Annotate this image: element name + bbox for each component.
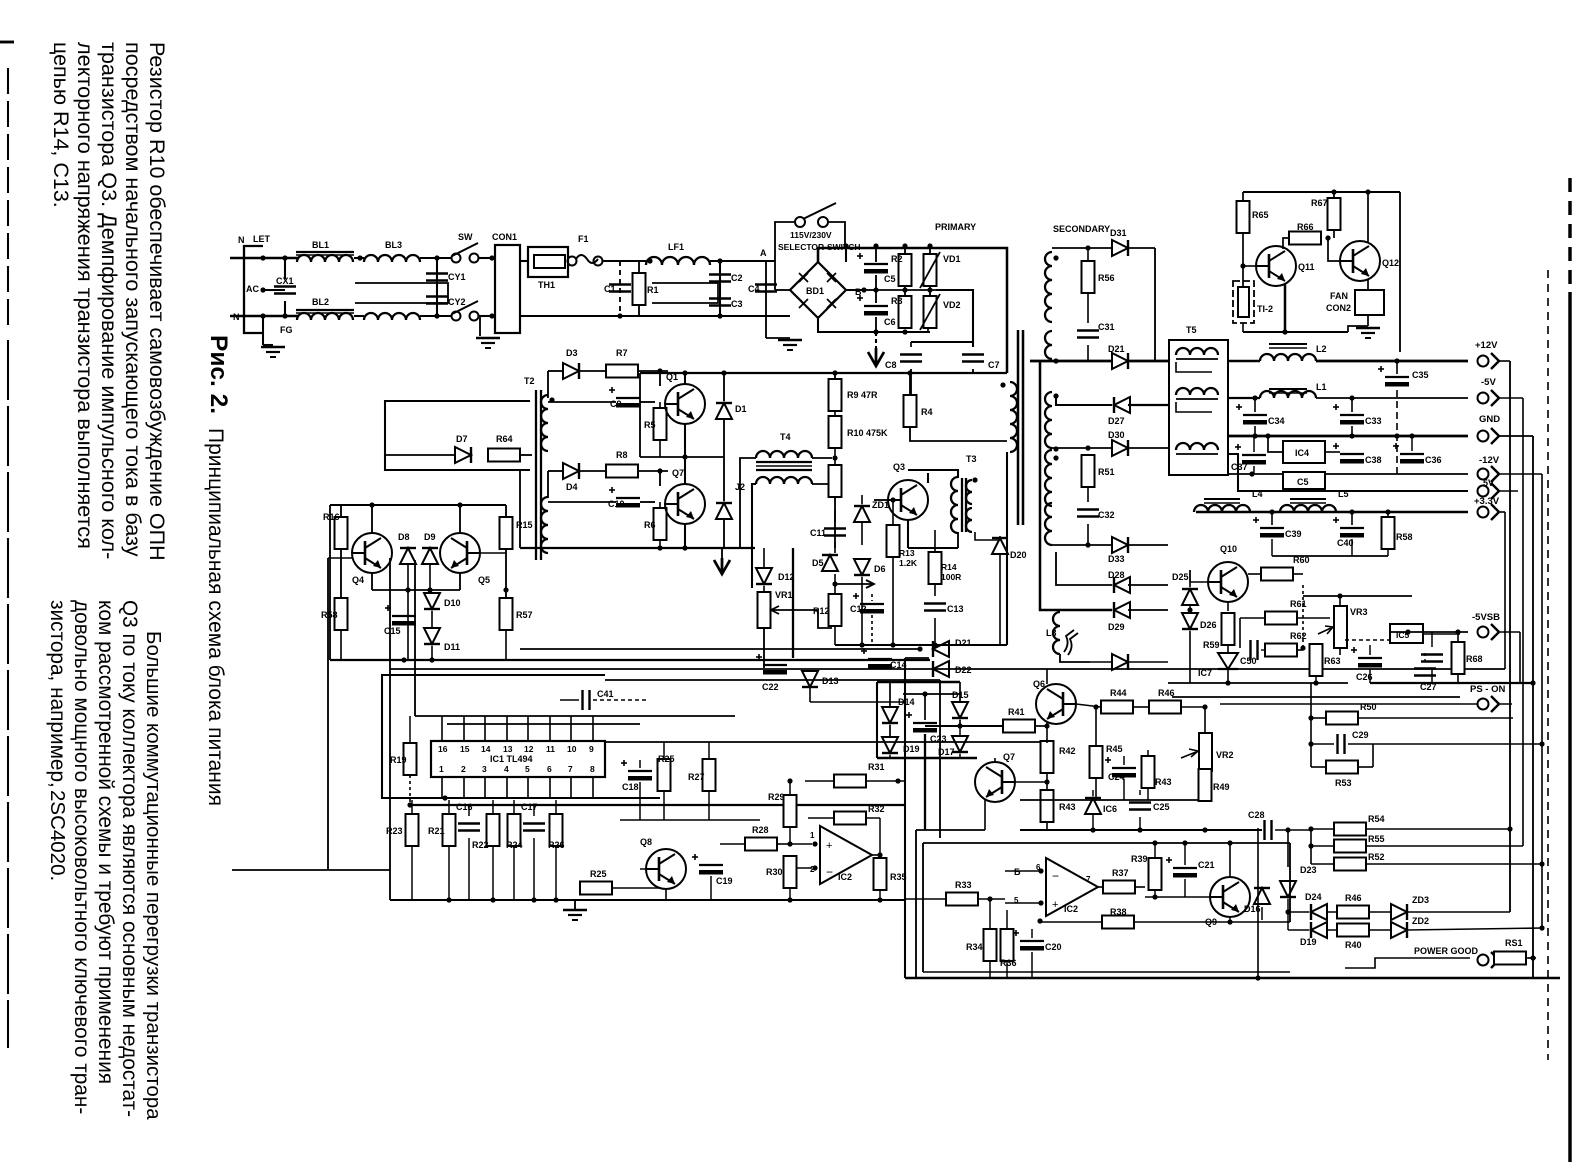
wire R53 in — [1311, 766, 1326, 768]
wire link to R50 block — [1310, 683, 1312, 718]
wire C5 top — [875, 246, 877, 262]
inductor BL2 — [297, 313, 353, 320]
wire D1 top — [723, 373, 725, 401]
wire R1 top — [638, 261, 640, 273]
svg-text:D5: D5 — [812, 558, 824, 568]
wire Q6-R44 — [1076, 704, 1101, 707]
wire bottom rail prim — [864, 331, 930, 333]
diode D12 — [756, 568, 772, 584]
junction C39 top — [1269, 509, 1274, 514]
wire primary return — [875, 332, 877, 348]
svg-text:D7: D7 — [456, 434, 468, 444]
junction R31 out — [895, 778, 900, 783]
wire GND rail — [1228, 435, 1468, 438]
resistor R8 — [606, 465, 638, 478]
junction Q3 base node — [890, 497, 895, 502]
svg-text:2: 2 — [461, 764, 466, 774]
capacitor C8 — [900, 355, 922, 362]
wire C13 bot — [934, 618, 936, 645]
resistor R51b — [1494, 952, 1526, 965]
resistor R66 — [1289, 232, 1321, 245]
resistor R21 — [443, 814, 456, 846]
wire C11-D5 — [834, 543, 836, 553]
wire -5 cont — [1499, 397, 1523, 399]
wire Q3 emitter — [907, 520, 909, 548]
wire to R61 — [1240, 617, 1265, 619]
wire D33 out — [1128, 544, 1168, 546]
svg-text:R37: R37 — [1112, 868, 1129, 878]
zener IC6 — [1085, 798, 1101, 814]
wire C16 bot — [468, 838, 470, 900]
IC IC4 box — [1283, 441, 1325, 463]
svg-text:D6: D6 — [874, 564, 886, 574]
wire C17 top — [533, 805, 535, 816]
svg-text:Q11: Q11 — [1298, 262, 1315, 272]
junction R38 in — [1037, 918, 1042, 923]
wire joint — [1315, 649, 1317, 651]
junction CY node bot — [434, 313, 439, 318]
svg-text:зистора, например,: зистора, например, — [46, 600, 69, 788]
wire D27 right — [1128, 404, 1168, 406]
junction R10 node — [832, 455, 837, 460]
svg-text:C11: C11 — [810, 528, 826, 538]
svg-text:Резистор R10 обеспечивает с: Резистор R10 обеспечивает самовозбуждени… — [145, 42, 169, 561]
svg-text:Q7: Q7 — [1003, 752, 1015, 762]
wire to IC2 pin1 — [790, 843, 812, 845]
wire R545252 left — [1310, 829, 1312, 864]
wire R32 out — [866, 817, 880, 819]
resistor R63 — [1310, 644, 1323, 676]
resistor R39 — [1149, 858, 1162, 890]
wire reg bottom rail — [1168, 682, 1348, 684]
diode D6 — [854, 559, 870, 575]
junction C5C6 — [873, 287, 878, 292]
inductor L3 — [1053, 612, 1060, 654]
wire R13 bot — [892, 557, 894, 645]
resistor R57 — [500, 598, 513, 630]
svg-text:R51: R51 — [1098, 467, 1115, 477]
svg-text:R40: R40 — [1345, 940, 1362, 950]
wire C36 top — [1411, 436, 1413, 451]
wire Q10-R60 — [1248, 573, 1261, 575]
wire VD1-VD2 — [929, 286, 931, 296]
junction CY node top — [434, 255, 439, 260]
junction D15 out — [957, 723, 962, 728]
svg-text:R4: R4 — [921, 407, 933, 417]
wire BL2-BL3 — [354, 315, 364, 317]
wire to D3 — [548, 370, 563, 372]
wire rail 843 — [1040, 842, 1290, 844]
wire diode box top — [877, 681, 960, 684]
wire ground bus ic1 — [390, 899, 905, 901]
wire C21 bot — [1184, 879, 1186, 897]
svg-text:L3: L3 — [1046, 628, 1057, 638]
wire 3v3 down — [1504, 512, 1506, 669]
svg-text:C29: C29 — [1352, 730, 1369, 740]
core L3 arrow — [1064, 630, 1078, 655]
wire gnd down x1533 — [1532, 436, 1534, 978]
resistor R52 — [1334, 858, 1366, 871]
wire to D4 — [548, 470, 563, 472]
junction Q1 base — [657, 368, 662, 373]
diode D22 — [933, 661, 949, 677]
wire AC tap — [263, 289, 285, 291]
core T3 a — [961, 478, 963, 532]
wire VD1 top — [929, 246, 931, 254]
wire dashed x1303 — [1302, 585, 1304, 648]
capacitor C17 — [523, 824, 545, 831]
svg-text:C5: C5 — [884, 274, 896, 284]
diode D30 — [1112, 440, 1128, 456]
svg-text:RS1: RS1 — [1505, 938, 1523, 948]
junction T1 prim top — [1000, 382, 1005, 387]
svg-text:R9 47R: R9 47R — [847, 390, 878, 400]
wire Q6 em down — [1046, 721, 1048, 743]
wire IC2a out — [872, 854, 880, 856]
wire R53 up — [1372, 744, 1374, 767]
svg-text:BL3: BL3 — [385, 240, 402, 250]
svg-text:+12V: +12V — [1475, 340, 1498, 351]
capacitor C38 — [1333, 443, 1364, 464]
wire R54 in — [1311, 828, 1334, 830]
wire R39 top — [1154, 843, 1156, 858]
svg-text:CON1: CON1 — [492, 232, 517, 242]
thermistor TH1 — [528, 247, 568, 277]
wire +3.3V rail — [1196, 511, 1468, 514]
wire R12 bot — [834, 626, 836, 645]
svg-text:D33: D33 — [1108, 554, 1125, 564]
capacitor C16 — [458, 824, 480, 831]
resistor R37 — [1103, 881, 1135, 894]
wire R56 top — [1087, 248, 1089, 261]
wire R16 top — [340, 505, 342, 517]
junction D1 top — [721, 370, 726, 375]
wire C6 bot — [875, 317, 877, 332]
wire R50 out — [1358, 717, 1513, 719]
wire diode box left — [876, 682, 878, 758]
wire C39 top — [1271, 512, 1273, 525]
junction zd2 row — [1539, 925, 1544, 930]
wire D12 top — [763, 548, 765, 568]
transformer T1 sec w2 — [1045, 392, 1052, 448]
svg-text:16: 16 — [438, 744, 448, 754]
wire selector left — [775, 222, 795, 261]
wire IC6 bot — [1092, 814, 1094, 830]
svg-text:1: 1 — [439, 764, 444, 774]
arrow R12 node — [835, 580, 874, 588]
ground IC1 area — [563, 910, 587, 920]
junction gnd683 — [1530, 680, 1535, 685]
transformer T4 winding top — [756, 451, 812, 458]
diode D23 — [1280, 881, 1296, 897]
wire R46 out — [1181, 706, 1205, 708]
svg-text:Рис. 2.: Рис. 2. — [205, 335, 232, 414]
svg-text:R58: R58 — [1396, 532, 1413, 542]
wire C41 in — [560, 699, 579, 701]
resistor R24 — [508, 814, 521, 846]
wire bus b3 — [520, 648, 920, 650]
wire selector right — [828, 222, 845, 246]
wire R32 in — [808, 817, 834, 819]
svg-text:L5: L5 — [1338, 489, 1349, 499]
resistor R50 — [1326, 712, 1358, 725]
diode D1 — [716, 403, 732, 419]
inductor L5 — [1280, 505, 1336, 512]
junction L — [260, 255, 265, 260]
junction gnd3 — [531, 897, 536, 902]
wire primary bottom rail — [835, 644, 1007, 646]
terminal GND — [1478, 428, 1500, 444]
transistor Q3 — [888, 480, 928, 520]
svg-text:D24: D24 — [1305, 892, 1322, 902]
wire L3 top — [1059, 611, 1061, 613]
resistor R22 — [487, 814, 500, 846]
wire C24 bot — [1123, 779, 1125, 800]
svg-text:R61: R61 — [1290, 599, 1307, 609]
junction R54 right — [1507, 826, 1512, 831]
svg-text:R3: R3 — [891, 296, 903, 306]
capacitor C20 — [1013, 930, 1044, 951]
wire Q10 base in — [1190, 581, 1208, 583]
wire R13 top — [892, 500, 894, 525]
wire R21 bot — [448, 846, 450, 900]
wire VR2 bot — [1204, 771, 1206, 800]
svg-text:R52: R52 — [1368, 852, 1385, 862]
svg-text:C20: C20 — [1045, 942, 1062, 952]
junction Q1 coll top — [682, 370, 687, 375]
junction mid drivers — [682, 454, 687, 459]
wire D25-D26 — [1189, 605, 1191, 613]
wire R52 out rail — [1365, 863, 1542, 865]
page edge right lower — [1568, 292, 1571, 1162]
ground fan — [1356, 328, 1380, 338]
resistor R33 — [946, 893, 978, 906]
wire F1-LF1 — [602, 260, 648, 262]
wire C25 bot — [1139, 817, 1141, 830]
resistor R35 — [874, 858, 887, 890]
diode D4 — [563, 463, 579, 479]
junction pg — [1530, 955, 1535, 960]
svg-text:R16: R16 — [323, 512, 340, 522]
junction gnd1 — [446, 897, 451, 902]
resistor R49 — [1199, 769, 1212, 801]
diode D27 — [1114, 397, 1130, 413]
wire BL1-BL3 — [354, 257, 364, 259]
wire C7 down — [972, 369, 974, 373]
svg-text:PS - ON: PS - ON — [1470, 684, 1506, 695]
svg-text:CY2: CY2 — [448, 297, 466, 307]
svg-text:4: 4 — [504, 764, 509, 774]
resistor R12 — [829, 594, 842, 626]
svg-text:−: − — [1052, 869, 1059, 883]
wire R58 top — [1387, 512, 1389, 517]
wire +12 down x1510 — [1509, 361, 1511, 912]
resistor R13 — [887, 525, 900, 557]
wire pin10 up — [570, 716, 572, 741]
wire R19 bottom — [409, 775, 411, 805]
core L4 a — [1204, 498, 1240, 500]
svg-text:D19: D19 — [1300, 937, 1317, 947]
wire SW-CON1 top — [479, 257, 495, 259]
wire R30 bot — [789, 888, 791, 900]
junction pin5 — [1038, 900, 1043, 905]
svg-text:R54: R54 — [1368, 814, 1385, 824]
wire R34 top — [989, 899, 991, 929]
wire C26 top — [1369, 645, 1371, 655]
transformer T1 core b — [1022, 330, 1025, 525]
wire C35 bot — [1351, 426, 1353, 436]
wire CX1 top — [284, 258, 286, 279]
svg-text:C18: C18 — [622, 782, 639, 792]
wire bridge top out — [818, 248, 1005, 262]
svg-text:R1: R1 — [647, 285, 659, 295]
junction T2 up dot — [549, 397, 554, 402]
resistor R15 — [500, 517, 513, 549]
svg-text:R7: R7 — [616, 348, 628, 358]
svg-text:T3: T3 — [966, 454, 977, 464]
wire C19 bot — [710, 876, 712, 900]
wire LF1 out — [710, 260, 775, 262]
wire rail drop x793 — [792, 548, 794, 658]
wire C10 in — [548, 501, 616, 503]
junction C30 top — [1394, 358, 1399, 363]
wire rail to gnd — [1348, 326, 1368, 332]
wire L2 to +12V — [1316, 360, 1468, 363]
svg-text:C38: C38 — [1365, 455, 1382, 465]
wire D14 top — [889, 682, 891, 707]
wire R24 top — [513, 800, 515, 814]
wire D14-D19 — [889, 725, 891, 737]
wire Q5 emitter down — [459, 573, 461, 590]
op-amp IC2a — [820, 826, 872, 884]
svg-text:C8: C8 — [885, 360, 897, 370]
wire Q5 base link — [480, 552, 506, 554]
junction C29 in — [1308, 741, 1313, 746]
svg-text:Большие коммутационные перег: Большие коммутационные перегрузки транзи… — [142, 631, 165, 1120]
wire FG stub — [263, 344, 273, 346]
svg-text:C1: C1 — [604, 284, 616, 294]
svg-text:VR2: VR2 — [1216, 750, 1234, 760]
svg-text:R31: R31 — [868, 762, 885, 772]
svg-text:R43: R43 — [1059, 802, 1076, 812]
wire R57 bot — [505, 630, 507, 660]
wire to D24 — [1288, 911, 1309, 913]
svg-text:VR3: VR3 — [1350, 607, 1368, 617]
transistor Q6 — [1036, 684, 1076, 724]
wire arrow stub — [721, 548, 723, 558]
wire D23 bot — [1287, 899, 1289, 912]
wire 5v cont — [1499, 490, 1518, 492]
wire D25 top — [1189, 570, 1191, 587]
svg-text:посредством начального запус: посредством начального запускающего тока… — [121, 42, 146, 557]
svg-text:T5: T5 — [1186, 325, 1197, 335]
wire pin16 up — [441, 716, 443, 741]
svg-text:D9: D9 — [424, 532, 436, 542]
fuse F1 — [568, 255, 603, 266]
wire C27 top — [1424, 653, 1426, 665]
svg-text:BD1: BD1 — [806, 286, 824, 296]
svg-text:R46: R46 — [1345, 893, 1362, 903]
svg-text:11: 11 — [546, 744, 555, 754]
wire T3 left bot — [957, 532, 959, 548]
svg-text:C50: C50 — [1240, 656, 1257, 666]
wire R36 bot — [1006, 961, 1008, 978]
capacitor C14 — [861, 648, 892, 669]
svg-text:D27: D27 — [1108, 416, 1125, 426]
wire mid rail 830 — [1020, 829, 1262, 831]
svg-text:-5V: -5V — [1481, 377, 1496, 388]
switch SW lower — [452, 301, 479, 321]
wire D8 to bottom — [407, 590, 409, 660]
svg-text:1: 1 — [810, 831, 815, 840]
svg-text:C36: C36 — [1425, 455, 1442, 465]
wire T5-L1 — [1228, 397, 1260, 399]
svg-text:R46: R46 — [1158, 688, 1175, 698]
resistor R31 — [834, 775, 866, 788]
svg-text:FAN: FAN — [1330, 291, 1348, 301]
diode D9 — [422, 548, 438, 564]
wire T5 inner1 — [1176, 362, 1212, 372]
wire R33 in — [905, 898, 946, 900]
wire LF1 inner loop — [652, 283, 718, 303]
capacitor C31 — [1077, 331, 1099, 338]
resistor R41 — [1003, 720, 1035, 733]
resistor R11 — [829, 465, 842, 497]
wire IC4 out — [1325, 451, 1340, 453]
capacitor C9 — [609, 387, 640, 408]
svg-text:R41: R41 — [1008, 707, 1025, 717]
wire R62 out — [1297, 649, 1303, 651]
wire R25 out — [612, 887, 660, 889]
wire C9 in — [548, 401, 616, 403]
capacitor C24 — [1105, 757, 1136, 778]
potentiometer VR2 — [1181, 733, 1212, 771]
wire R31 out — [866, 780, 905, 782]
svg-text:R21: R21 — [428, 826, 445, 836]
wire R28-node — [777, 843, 790, 845]
wire top right corner — [1005, 248, 1007, 373]
potentiometer VR1 — [758, 592, 787, 628]
wire bottom bus — [905, 977, 1560, 980]
capacitor C40 — [1333, 517, 1364, 538]
wire C37 bot — [1253, 466, 1255, 474]
wire D16 bot — [1261, 907, 1263, 920]
core L4 b — [1204, 502, 1240, 504]
svg-text:100R: 100R — [941, 572, 961, 582]
wire bus b2 — [390, 668, 1505, 670]
svg-text:R38: R38 — [1110, 907, 1127, 917]
junction R54 in — [1308, 826, 1313, 831]
junction sec w2 dot — [1053, 446, 1058, 451]
wire Q4 coll up — [371, 505, 373, 533]
wire D32 out — [1128, 360, 1168, 363]
wire TH2 bottom — [1242, 323, 1244, 332]
svg-text:TH1: TH1 — [538, 280, 555, 290]
svg-text:R19: R19 — [390, 755, 407, 765]
wire R10-R11 — [834, 448, 836, 465]
svg-text:C35: C35 — [1412, 370, 1429, 380]
wire pin14 up — [484, 716, 486, 741]
capacitor C23 — [906, 712, 937, 733]
capacitor C7 — [962, 355, 984, 362]
junction fan rail b — [1365, 189, 1370, 194]
potentiometer VR3 — [1318, 606, 1347, 648]
wire D34 out — [1128, 661, 1168, 663]
wire R58b bot — [1387, 549, 1389, 556]
wire C20 bot — [1031, 952, 1033, 978]
wire T5 inner2 — [1176, 402, 1212, 412]
zener ZD1 — [854, 506, 870, 522]
